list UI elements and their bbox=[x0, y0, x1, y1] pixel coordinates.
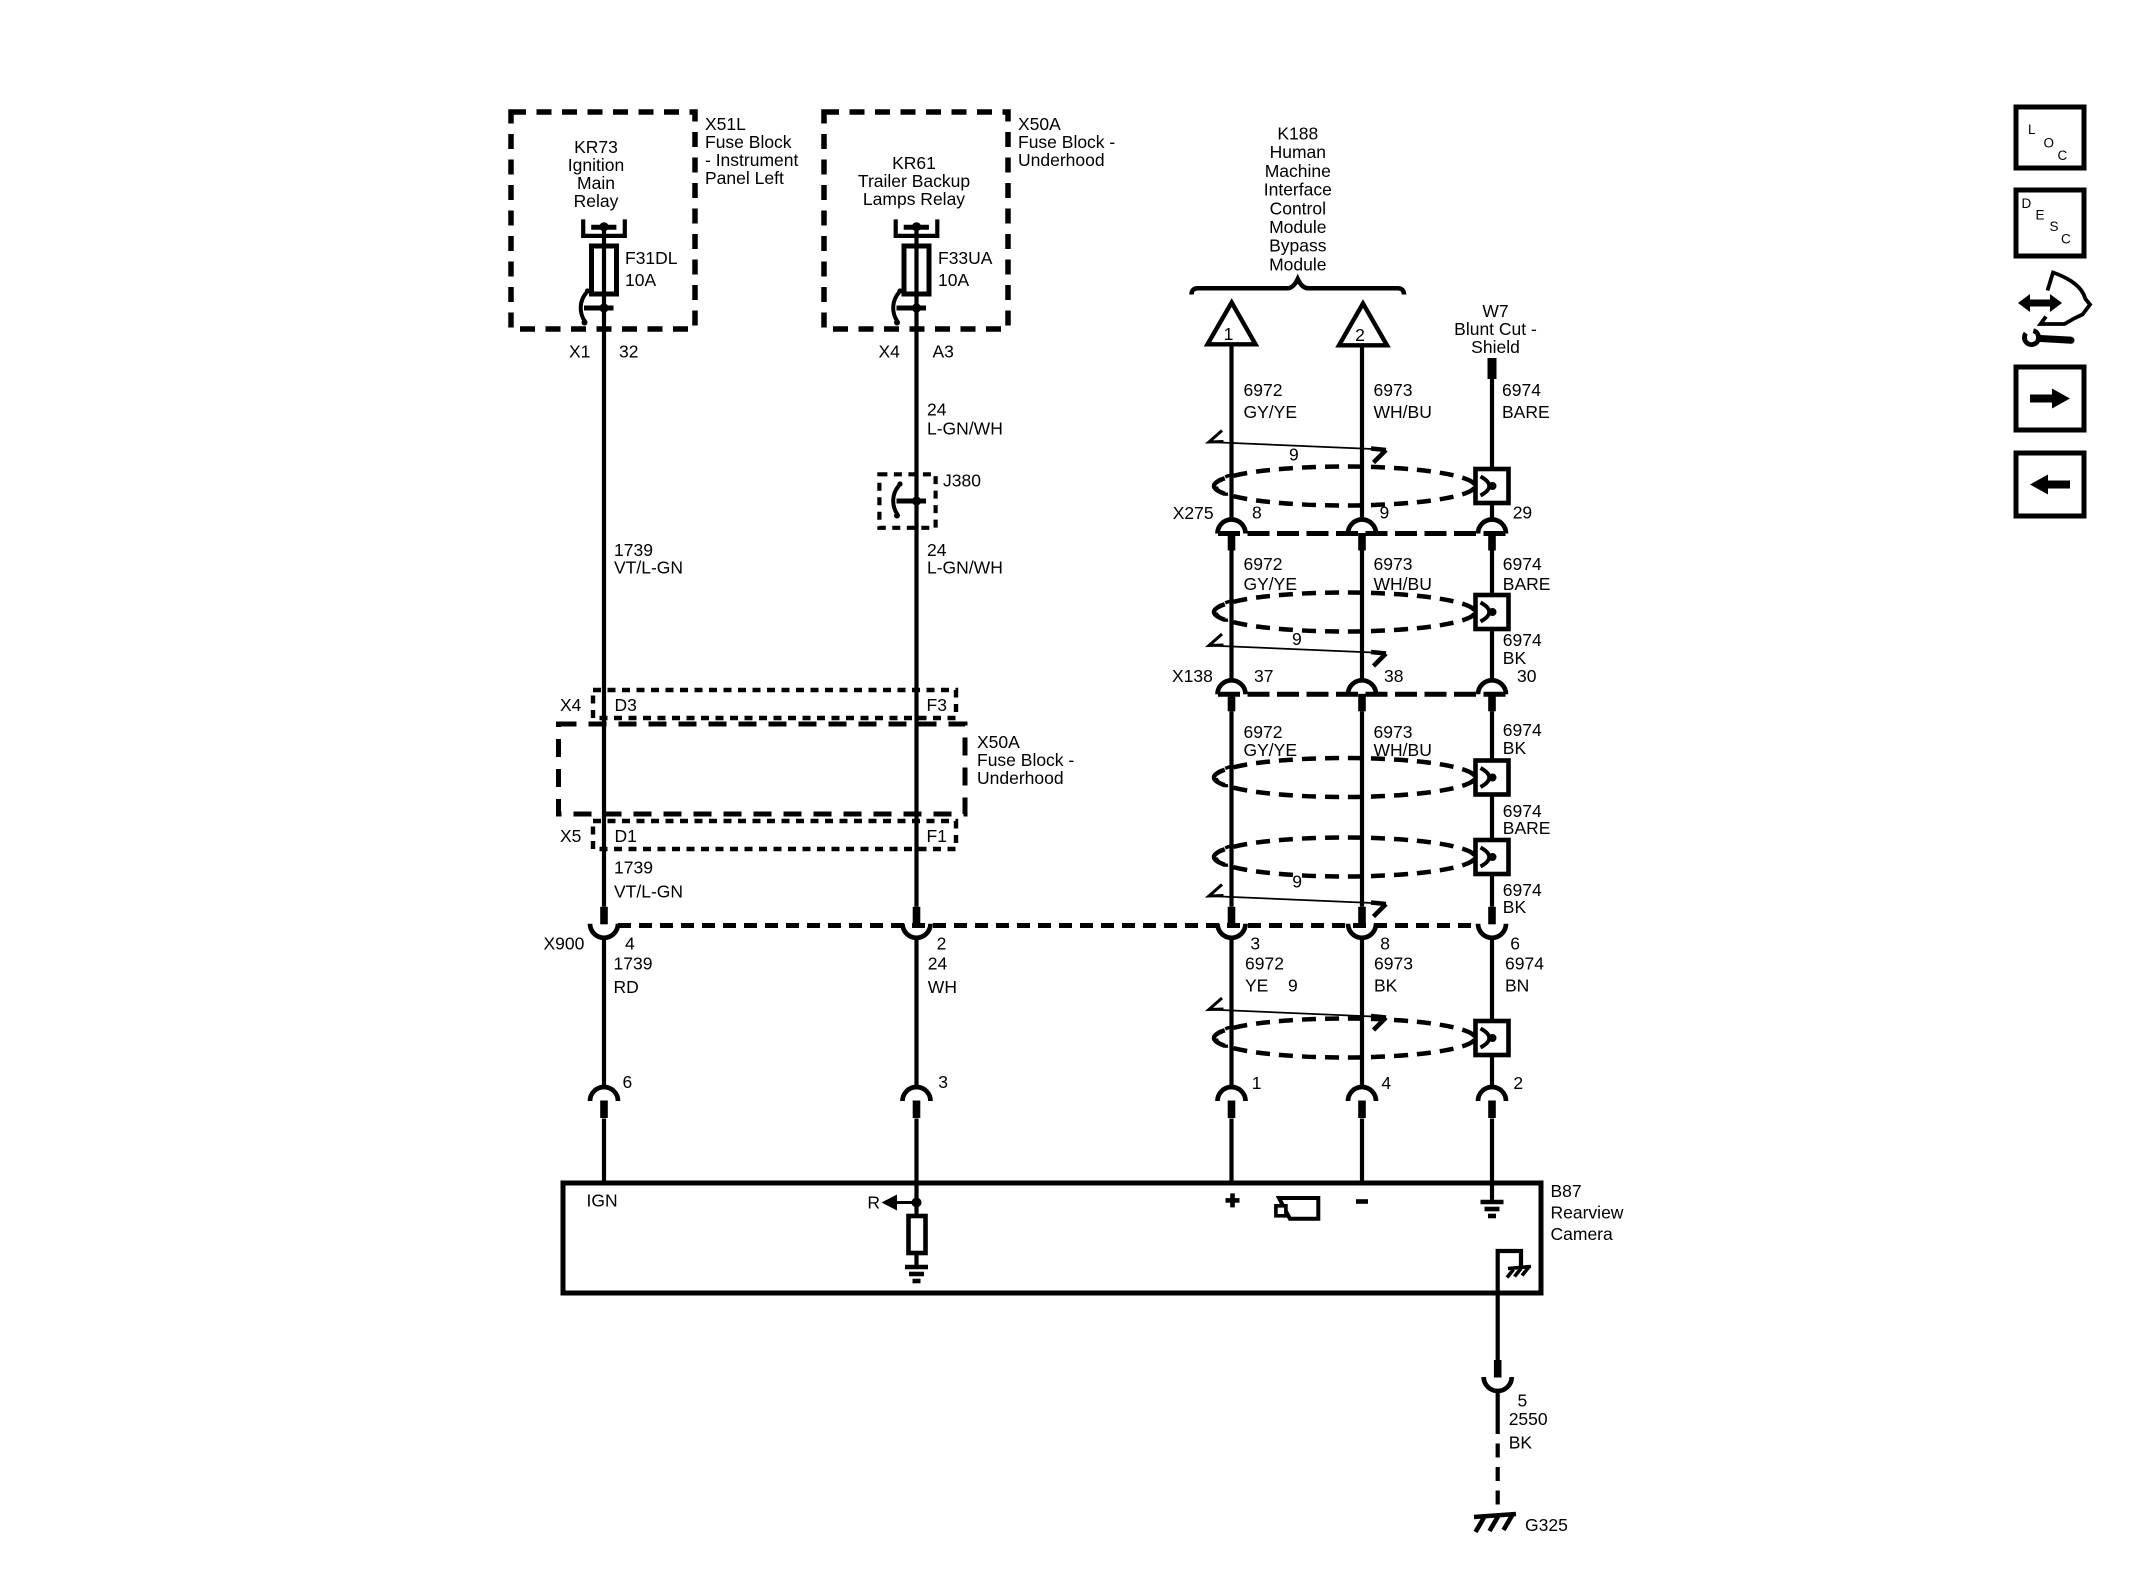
wire 1739 label RD bbox=[614, 954, 653, 998]
wire 6973 label WH/BU (seg 3) bbox=[1374, 722, 1432, 760]
camera pin label IGN bbox=[587, 1191, 618, 1211]
pin 4 label at camera bbox=[1381, 1073, 1391, 1093]
svg-text:W7: W7 bbox=[1482, 301, 1508, 321]
fuse block X50A (underhood) dashed outline bbox=[559, 724, 966, 814]
shield ellipse 5 bbox=[1214, 1019, 1475, 1058]
wire 6973 segment X275-to-X138 bbox=[1360, 551, 1364, 681]
svg-text:6973: 6973 bbox=[1374, 954, 1413, 974]
svg-text:6974: 6974 bbox=[1503, 630, 1542, 650]
camera ground wire labels bbox=[1509, 1391, 1548, 1453]
camera minus terminal label bbox=[1356, 1199, 1368, 1204]
svg-text:Relay: Relay bbox=[574, 191, 619, 211]
svg-text:4: 4 bbox=[625, 934, 635, 954]
connector row X4 dotted box bbox=[593, 690, 956, 718]
wire 6974 label BARE (seg 2) bbox=[1503, 554, 1551, 594]
svg-text:6973: 6973 bbox=[1374, 554, 1413, 574]
wire 6972 label YE bbox=[1245, 954, 1284, 996]
wire 6973 label BK bbox=[1374, 954, 1413, 996]
svg-text:9: 9 bbox=[1380, 503, 1390, 523]
svg-text:Fuse Block: Fuse Block bbox=[705, 132, 792, 152]
wire 6972 YE segment bbox=[1229, 937, 1233, 1087]
splice J380 symbol bbox=[879, 474, 935, 528]
svg-text:4: 4 bbox=[1381, 1073, 1391, 1093]
twisted pair symbol 4 with count 9 bbox=[1209, 976, 1387, 1031]
connector X138 terminal pin 38 bbox=[1348, 680, 1376, 711]
svg-text:R: R bbox=[867, 1193, 880, 1213]
svg-text:1: 1 bbox=[1252, 1073, 1262, 1093]
camera chassis ground bracket bbox=[1498, 1251, 1531, 1293]
svg-text:X138: X138 bbox=[1172, 666, 1213, 686]
sidebar LOC button bbox=[2016, 107, 2084, 168]
wire 6974 label BK after box 2 bbox=[1503, 630, 1542, 668]
wire 6972 segment module-to-X275 bbox=[1229, 344, 1233, 520]
shield ellipse 2 bbox=[1214, 593, 1475, 632]
svg-text:BK: BK bbox=[1503, 738, 1527, 758]
svg-text:B87: B87 bbox=[1551, 1181, 1582, 1201]
svg-text:G325: G325 bbox=[1525, 1515, 1568, 1535]
svg-text:RD: RD bbox=[614, 977, 639, 997]
svg-text:Blunt Cut -: Blunt Cut - bbox=[1454, 319, 1537, 339]
ground G325 label bbox=[1525, 1515, 1568, 1535]
camera connector terminal pin 2 bbox=[1478, 1087, 1506, 1118]
wire 24 label L-GN/WH (below J380) bbox=[927, 540, 1003, 578]
svg-text:9: 9 bbox=[1292, 629, 1302, 649]
svg-text:F3: F3 bbox=[927, 695, 947, 715]
camera connector terminal pin 4 bbox=[1348, 1087, 1376, 1118]
blunt cut W7 labels bbox=[1454, 301, 1537, 357]
pin 6 label at camera bbox=[623, 1072, 633, 1092]
wire 1739 RD segment bbox=[602, 937, 606, 1087]
pin 3 label at X900 bbox=[1250, 934, 1260, 954]
module K188 triangle pin 2 bbox=[1339, 304, 1387, 346]
fuse block X50A (underhood) labels bbox=[977, 732, 1074, 788]
wire stub - into camera bbox=[1360, 1119, 1364, 1186]
shield termination box 2 bbox=[1476, 595, 1509, 629]
camera ground wire upper bbox=[1496, 1293, 1500, 1361]
pin 1 label at camera bbox=[1252, 1073, 1262, 1093]
relay KR61 contact symbol bbox=[896, 219, 938, 236]
pin 8 label at X900 bbox=[1380, 934, 1390, 954]
pin 3 label at camera bbox=[938, 1072, 948, 1092]
camera connector terminal pin 6 bbox=[590, 1087, 618, 1118]
svg-text:Machine: Machine bbox=[1265, 161, 1331, 181]
shield ellipse 4 bbox=[1214, 838, 1475, 877]
svg-text:KR61: KR61 bbox=[892, 153, 936, 173]
wire 6973 BK segment bbox=[1360, 937, 1364, 1087]
svg-text:6972: 6972 bbox=[1244, 554, 1283, 574]
wire 6972 label GY/YE (seg 3) bbox=[1244, 722, 1298, 760]
sidebar part-info icon double arrow bbox=[2018, 294, 2062, 312]
camera plus terminal label bbox=[1226, 1193, 1240, 1207]
svg-text:9: 9 bbox=[1292, 872, 1302, 892]
in-line connector X275 dashed line bbox=[1218, 531, 1506, 536]
svg-text:Lamps Relay: Lamps Relay bbox=[863, 189, 965, 209]
fuse F33UA symbol bbox=[904, 246, 929, 294]
sidebar part-info icon part outline bbox=[2041, 273, 2091, 325]
wire 6974 segment X138-to-X900 bbox=[1490, 711, 1494, 907]
wire 24 label WH bbox=[928, 954, 957, 998]
svg-text:X5: X5 bbox=[560, 826, 581, 846]
svg-text:6972: 6972 bbox=[1244, 380, 1283, 400]
twisted pair symbol 1 with count 9 bbox=[1209, 431, 1387, 465]
relay KR73 contact symbol bbox=[583, 219, 625, 236]
svg-text:- Instrument: - Instrument bbox=[705, 150, 798, 170]
shield termination box 3 bbox=[1476, 761, 1509, 795]
connector X1 pin 32 labels bbox=[569, 342, 638, 362]
wire 6974 segment W7-to-X275 bbox=[1490, 379, 1494, 520]
wire 6972 label GY/YE (seg 2) bbox=[1244, 554, 1298, 594]
svg-text:3: 3 bbox=[938, 1072, 948, 1092]
svg-text:Underhood: Underhood bbox=[1018, 150, 1105, 170]
svg-text:6974: 6974 bbox=[1503, 554, 1542, 574]
svg-text:2550: 2550 bbox=[1509, 1409, 1548, 1429]
svg-text:WH/BU: WH/BU bbox=[1374, 402, 1432, 422]
terminal hook below fuse F31DL bbox=[581, 288, 614, 325]
svg-text:6973: 6973 bbox=[1374, 380, 1413, 400]
svg-text:Interface: Interface bbox=[1264, 180, 1332, 200]
shield termination box 4 bbox=[1476, 840, 1509, 874]
svg-text:IGN: IGN bbox=[587, 1191, 618, 1211]
svg-text:K188: K188 bbox=[1277, 124, 1318, 144]
sidebar DESC button bbox=[2016, 190, 2084, 256]
svg-text:Underhood: Underhood bbox=[977, 768, 1064, 788]
svg-text:E: E bbox=[2036, 208, 2045, 223]
shield termination box 1 bbox=[1476, 469, 1509, 503]
svg-text:KR73: KR73 bbox=[574, 137, 618, 157]
svg-text:1: 1 bbox=[1224, 324, 1234, 344]
wire 1739 from KR73 (segment 1) bbox=[602, 227, 606, 907]
svg-text:BK: BK bbox=[1374, 976, 1398, 996]
svg-text:C: C bbox=[2061, 232, 2071, 247]
svg-text:6972: 6972 bbox=[1245, 954, 1284, 974]
svg-text:9: 9 bbox=[1288, 976, 1298, 996]
svg-text:X900: X900 bbox=[544, 934, 585, 954]
svg-text:24: 24 bbox=[928, 954, 948, 974]
wire stub IGN into camera bbox=[602, 1119, 606, 1186]
connector row X4 labels bbox=[560, 695, 947, 715]
svg-text:37: 37 bbox=[1254, 666, 1273, 686]
connector X900 terminal pin 3 bbox=[1218, 907, 1246, 938]
shield ellipse 3 bbox=[1214, 758, 1475, 797]
svg-text:X4: X4 bbox=[879, 342, 901, 362]
svg-text:6: 6 bbox=[623, 1072, 633, 1092]
fuse F33UA value label bbox=[938, 248, 993, 290]
wire 6973 label WH/BU (seg 2) bbox=[1374, 554, 1432, 594]
sidebar back button bbox=[2016, 453, 2084, 516]
svg-text:3: 3 bbox=[1250, 934, 1260, 954]
in-line connector X138 dashed line bbox=[1218, 692, 1506, 697]
camera connector terminal pin 1 bbox=[1218, 1087, 1246, 1118]
svg-text:1739: 1739 bbox=[614, 858, 653, 878]
svg-text:X51L: X51L bbox=[705, 114, 746, 134]
module K188 brace bbox=[1192, 279, 1405, 295]
connector X138 terminal pin 37 bbox=[1218, 680, 1246, 711]
svg-text:L-GN/WH: L-GN/WH bbox=[927, 419, 1003, 439]
fuse block X51L labels bbox=[705, 114, 798, 188]
connector X900 terminal pin 2 bbox=[903, 907, 931, 938]
fuse block X50A (top) labels bbox=[1018, 114, 1115, 170]
svg-text:D3: D3 bbox=[615, 695, 637, 715]
svg-text:Trailer Backup: Trailer Backup bbox=[858, 171, 970, 191]
svg-text:F1: F1 bbox=[927, 826, 947, 846]
svg-text:X4: X4 bbox=[560, 695, 582, 715]
svg-text:F33UA: F33UA bbox=[938, 248, 993, 268]
svg-text:1739: 1739 bbox=[614, 954, 653, 974]
svg-text:Module: Module bbox=[1269, 217, 1326, 237]
svg-text:GY/YE: GY/YE bbox=[1244, 740, 1298, 760]
wire 6973 label WH/BU (seg 1) bbox=[1374, 380, 1432, 422]
svg-text:Panel Left: Panel Left bbox=[705, 168, 784, 188]
svg-text:29: 29 bbox=[1513, 503, 1532, 523]
module K188 triangle pin 1 bbox=[1208, 303, 1256, 345]
camera icon bbox=[1276, 1198, 1318, 1219]
svg-text:Fuse Block -: Fuse Block - bbox=[977, 750, 1074, 770]
svg-text:C: C bbox=[2058, 148, 2068, 163]
twisted pair symbol 2 with count 9 bbox=[1209, 629, 1387, 666]
camera ground wire connector pin 5 bbox=[1484, 1360, 1512, 1391]
wire 6973 segment X138-to-X900 bbox=[1360, 711, 1364, 907]
svg-text:Control: Control bbox=[1270, 198, 1326, 218]
svg-text:8: 8 bbox=[1252, 503, 1262, 523]
svg-text:WH/BU: WH/BU bbox=[1374, 574, 1432, 594]
svg-text:Module: Module bbox=[1269, 254, 1326, 274]
svg-text:X275: X275 bbox=[1173, 503, 1214, 523]
shield termination box 5 bbox=[1476, 1021, 1509, 1055]
svg-text:L-GN/WH: L-GN/WH bbox=[927, 558, 1003, 578]
wire 6974 label BARE (seg 1) bbox=[1502, 380, 1550, 422]
svg-text:BARE: BARE bbox=[1502, 402, 1550, 422]
fuse F31DL value label bbox=[625, 248, 678, 290]
rearview camera B87 box bbox=[563, 1183, 1541, 1293]
wire 1739 label VT/L-GN (above X50A) bbox=[614, 540, 683, 578]
connector X900 terminal pin 8 bbox=[1348, 907, 1376, 938]
camera B87 labels bbox=[1551, 1181, 1624, 1244]
camera internal resistor bbox=[909, 1204, 926, 1267]
svg-text:32: 32 bbox=[619, 342, 638, 362]
svg-text:BN: BN bbox=[1505, 976, 1529, 996]
svg-text:8: 8 bbox=[1380, 934, 1390, 954]
svg-text:L: L bbox=[2028, 122, 2036, 137]
pin 2 label at camera bbox=[1513, 1073, 1523, 1093]
svg-text:BK: BK bbox=[1503, 897, 1527, 917]
svg-text:YE: YE bbox=[1245, 976, 1268, 996]
svg-text:X1: X1 bbox=[569, 342, 590, 362]
svg-text:6974: 6974 bbox=[1505, 954, 1544, 974]
wire 6974 label BARE between boxes bbox=[1503, 801, 1551, 838]
svg-text:30: 30 bbox=[1517, 666, 1537, 686]
module K188 labels bbox=[1264, 124, 1332, 275]
svg-text:Bypass: Bypass bbox=[1269, 236, 1327, 256]
svg-text:Camera: Camera bbox=[1551, 1224, 1614, 1244]
connector X275 terminal pin 9 bbox=[1348, 520, 1376, 551]
connector X900 terminal pin 4 bbox=[590, 907, 618, 938]
svg-text:O: O bbox=[2044, 136, 2055, 151]
svg-text:6973: 6973 bbox=[1374, 722, 1413, 742]
connector X900 label bbox=[544, 934, 585, 954]
svg-text:A3: A3 bbox=[933, 342, 954, 362]
wire 24 label L-GN/WH (above J380) bbox=[927, 400, 1003, 439]
svg-text:X50A: X50A bbox=[1018, 114, 1061, 134]
svg-text:D1: D1 bbox=[615, 826, 637, 846]
wire stub shield into camera bbox=[1490, 1119, 1494, 1187]
svg-text:GY/YE: GY/YE bbox=[1244, 574, 1298, 594]
sidebar part-info icon wrench bbox=[2019, 321, 2075, 348]
svg-text:Fuse Block -: Fuse Block - bbox=[1018, 132, 1115, 152]
splice J380 label bbox=[943, 471, 981, 491]
pin 2 label at X900 bbox=[937, 934, 947, 954]
svg-text:Main: Main bbox=[577, 173, 615, 193]
camera internal resistor ground bbox=[905, 1267, 928, 1281]
svg-text:F31DL: F31DL bbox=[625, 248, 678, 268]
pin 4 label at X900 bbox=[625, 934, 635, 954]
svg-text:X50A: X50A bbox=[977, 732, 1020, 752]
svg-text:6: 6 bbox=[1510, 934, 1520, 954]
camera ground wire lower bbox=[1496, 1391, 1500, 1515]
ground G325 symbol bbox=[1474, 1514, 1516, 1532]
connector row X5 dotted box bbox=[593, 821, 956, 849]
svg-text:BARE: BARE bbox=[1503, 818, 1551, 838]
wire 24 WH segment bbox=[914, 937, 918, 1087]
relay KR61 labels bbox=[858, 153, 970, 209]
svg-text:10A: 10A bbox=[938, 270, 969, 290]
wire 6974 label BN bbox=[1505, 954, 1544, 996]
wire 6974 segment X275-to-X138 bbox=[1490, 551, 1494, 681]
in-line connector X900 dashed line bbox=[618, 923, 1478, 928]
twisted pair symbol 3 with count 9 bbox=[1209, 872, 1387, 917]
svg-text:VT/L-GN: VT/L-GN bbox=[614, 558, 683, 578]
pin 6 label at X900 bbox=[1510, 934, 1520, 954]
svg-text:6974: 6974 bbox=[1503, 720, 1542, 740]
svg-text:6972: 6972 bbox=[1244, 722, 1283, 742]
svg-text:S: S bbox=[2050, 219, 2059, 234]
wire 6973 segment module-to-X275 bbox=[1360, 345, 1364, 520]
wire 6974 label BK (seg 3) bbox=[1503, 720, 1542, 758]
connector X138 labels bbox=[1172, 666, 1537, 686]
svg-text:GY/YE: GY/YE bbox=[1244, 402, 1298, 422]
svg-text:Human: Human bbox=[1270, 142, 1326, 162]
fuse block X51L dashed outline bbox=[511, 112, 695, 329]
svg-text:Rearview: Rearview bbox=[1551, 1203, 1624, 1223]
camera shield ground symbol bbox=[1481, 1186, 1504, 1216]
svg-text:6974: 6974 bbox=[1502, 380, 1541, 400]
wire 6974 BN segment bbox=[1490, 937, 1494, 1087]
sidebar next button bbox=[2016, 367, 2084, 430]
camera R input label and arrow bbox=[867, 1193, 921, 1213]
connector X275 terminal pin 29 bbox=[1478, 520, 1506, 551]
svg-text:2: 2 bbox=[937, 934, 947, 954]
connector row X5 labels bbox=[560, 826, 947, 846]
fuse F31DL symbol bbox=[592, 246, 617, 294]
svg-text:BARE: BARE bbox=[1503, 574, 1551, 594]
relay KR73 labels bbox=[568, 137, 624, 211]
wire 24 from KR61 (segment 1) bbox=[914, 227, 918, 907]
svg-text:D: D bbox=[2022, 196, 2032, 211]
connector X275 terminal pin 8 bbox=[1218, 520, 1246, 551]
svg-text:WH: WH bbox=[928, 977, 957, 997]
svg-text:VT/L-GN: VT/L-GN bbox=[614, 882, 683, 902]
svg-text:9: 9 bbox=[1289, 445, 1299, 465]
svg-text:J380: J380 bbox=[943, 471, 981, 491]
svg-text:5: 5 bbox=[1518, 1391, 1528, 1411]
terminal hook below fuse F33UA bbox=[893, 288, 926, 325]
shield ellipse 1 bbox=[1214, 467, 1475, 506]
svg-text:Ignition: Ignition bbox=[568, 155, 624, 175]
connector X138 terminal pin 30 bbox=[1478, 680, 1506, 711]
wire 6972 segment X138-to-X900 bbox=[1229, 711, 1233, 907]
svg-text:2: 2 bbox=[1513, 1073, 1523, 1093]
camera connector terminal pin 3 bbox=[903, 1087, 931, 1118]
svg-text:2: 2 bbox=[1355, 325, 1365, 345]
wire 6972 label GY/YE (seg 1) bbox=[1244, 380, 1298, 422]
connector X900 terminal pin 6 bbox=[1478, 907, 1506, 938]
wire 6972 segment X275-to-X138 bbox=[1229, 551, 1233, 681]
svg-text:Shield: Shield bbox=[1471, 337, 1520, 357]
wire stub R into camera bbox=[914, 1119, 918, 1205]
wire 1739 label VT/L-GN (below X50A) bbox=[614, 858, 683, 902]
connector X275 labels bbox=[1173, 503, 1532, 524]
svg-text:10A: 10A bbox=[625, 270, 656, 290]
connector X4 pin A3 labels bbox=[879, 342, 954, 362]
svg-text:BK: BK bbox=[1509, 1433, 1533, 1453]
svg-text:BK: BK bbox=[1503, 648, 1527, 668]
fuse block X50A (top) dashed outline bbox=[824, 112, 1008, 329]
svg-text:38: 38 bbox=[1384, 666, 1403, 686]
wire 6974 label BK after box 4 bbox=[1503, 880, 1542, 917]
svg-text:24: 24 bbox=[927, 400, 947, 420]
blunt cut W7 symbol bbox=[1488, 358, 1497, 379]
wire stub + into camera bbox=[1229, 1119, 1233, 1186]
